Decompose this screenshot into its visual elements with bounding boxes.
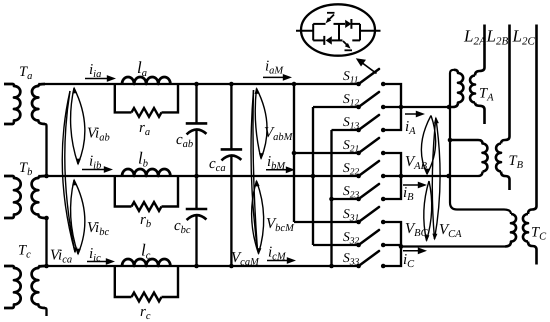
wire output C line	[401, 245, 505, 247]
wire S21 to node B	[383, 153, 401, 176]
node phase-a / c_ab	[194, 82, 199, 87]
inductor l_c	[122, 259, 170, 266]
IGBT Q2 (bottom-right)	[343, 41, 349, 47]
wire S32 to node C	[383, 245, 401, 247]
wire S31 feed	[294, 221, 359, 223]
capacitor c_ca	[221, 148, 243, 151]
switch S32 blade	[359, 230, 379, 245]
switch S31 blade	[359, 207, 379, 222]
oval bottom rail segs	[313, 39, 324, 41]
node Tb bottom corner	[44, 216, 49, 221]
current arrow i_ic	[87, 261, 108, 263]
capacitor c_ab	[186, 122, 208, 125]
current arrow i_aM	[263, 76, 285, 78]
node phase-c / c_bc	[194, 264, 199, 269]
wire phase a bus	[293, 84, 295, 222]
switch S13 blade	[359, 115, 379, 130]
wire phase c bus	[330, 130, 332, 266]
switch S21 terminals	[356, 151, 361, 156]
transformer Tc primary winding	[4, 266, 21, 308]
bidirectional switch detail oval	[301, 4, 375, 55]
inductor l_b	[122, 169, 170, 176]
oval middle rail	[338, 24, 340, 41]
voltage arrow Vi_ab	[71, 88, 78, 164]
wire phase b bus	[312, 107, 314, 245]
capacitor c_bc	[186, 208, 208, 211]
wire S31 to node C	[383, 222, 401, 247]
node phase-c bus	[329, 264, 334, 269]
node bus-a S21 tap	[292, 151, 297, 156]
transformer TC primary winding	[505, 214, 516, 247]
wire phase b line	[38, 175, 358, 177]
node phase-b bus	[311, 174, 316, 179]
switch S22 terminals	[356, 174, 361, 179]
current arrow i_A	[405, 113, 418, 115]
node C	[399, 244, 404, 249]
inductor l_a	[122, 77, 170, 84]
node phase-a / c_ca	[229, 82, 234, 87]
diode D1 (top-right)	[345, 20, 351, 28]
wire S32 feed	[313, 244, 359, 246]
oval right lead	[360, 30, 381, 32]
wire Tc-bottom stub	[45, 308, 47, 316]
wire S21 feed	[294, 152, 359, 154]
switch S13 terminals	[356, 128, 361, 133]
resistor r_c	[132, 293, 162, 302]
voltage arrow V_bcM	[252, 181, 259, 254]
transformer Tc secondary winding	[32, 266, 45, 308]
transformer Tb secondary winding	[32, 176, 45, 218]
transformer Ta primary winding	[4, 84, 20, 124]
voltage arrow V_BC	[424, 181, 429, 241]
oval left rail	[312, 24, 314, 41]
oval right rail	[359, 24, 361, 41]
wire Ta-bottom to phase b	[45, 124, 47, 176]
voltage arrow V_CA	[432, 118, 436, 239]
current arrow i_B	[403, 184, 420, 186]
resistor r_a	[132, 108, 162, 117]
resistor r_c branch	[115, 266, 132, 297]
wire S22 to node B	[383, 175, 401, 177]
node phase-a bus	[292, 82, 297, 87]
resistor r_b branch	[115, 176, 132, 207]
resistor r_b	[132, 202, 162, 211]
wire phase a line	[38, 83, 358, 85]
voltage arrow Vi_ca	[62, 91, 75, 252]
voltage arrow V_AB	[421, 116, 431, 175]
current arrow i_C	[403, 250, 420, 252]
switch S32 terminals	[356, 243, 361, 248]
transformer TB primary winding	[450, 140, 488, 172]
wire S12 feed	[313, 106, 359, 108]
transformer TB secondary winding	[496, 144, 501, 172]
wire S33 to node C	[383, 247, 401, 267]
wire Tb-bottom to phase c	[45, 218, 47, 266]
wire c_bc column	[195, 176, 197, 209]
voltage arrow V_abM	[255, 89, 261, 159]
switch S21 blade	[359, 138, 379, 153]
current arrow i_cM	[267, 260, 289, 262]
switch S23 terminals	[356, 197, 361, 202]
current arrow i_bM	[266, 169, 288, 171]
node output-B right	[446, 174, 451, 179]
wire S23 to node B	[383, 176, 401, 199]
wire S23 feed	[332, 198, 359, 200]
switch S33 terminals	[356, 264, 361, 269]
wire phase c line	[38, 265, 358, 267]
node B	[399, 174, 404, 179]
oval left lead	[296, 30, 313, 32]
IGBT Q1 (top-left)	[328, 15, 334, 21]
wire neutral bus	[450, 70, 511, 214]
switch S12 blade	[359, 92, 379, 107]
diode D2 (bottom-left)	[326, 36, 332, 44]
node phase-b / c_ab-c_bc	[194, 174, 199, 179]
node output-A right	[447, 105, 452, 110]
voltage arrow V_caM	[251, 90, 257, 250]
current arrow i_ib	[82, 169, 106, 171]
wire c_ab column	[195, 84, 197, 123]
transformer TA secondary winding	[475, 103, 485, 125]
wire S13 to node A	[383, 107, 401, 130]
switch S11 blade	[359, 69, 379, 84]
transformer Tb primary winding	[4, 176, 21, 218]
wire S12 to node A	[383, 106, 401, 108]
node bus-c S23 tap	[329, 197, 334, 202]
node A	[399, 105, 404, 110]
switch S12 terminals	[356, 105, 361, 110]
wire output A line	[401, 106, 449, 108]
transformer TC secondary winding	[523, 214, 528, 242]
voltage arrow Vi_bc	[71, 180, 78, 254]
node phase-c / c_ca	[229, 264, 234, 269]
wire output B line	[401, 172, 483, 177]
transformer Ta secondary winding	[32, 84, 45, 124]
wire S11 to node A	[383, 84, 401, 107]
wire S13 feed	[332, 129, 359, 131]
node neutral Tb tap	[448, 138, 453, 143]
switch S23 blade	[359, 184, 379, 199]
switch S31 terminals	[356, 220, 361, 225]
callout arrow to oval	[361, 62, 377, 74]
transformer TA primary winding	[450, 70, 463, 107]
resistor r_a branch	[115, 84, 132, 112]
switch S22 blade	[359, 161, 379, 176]
current arrow i_ia	[85, 78, 109, 80]
node phase-b / Ta	[44, 174, 49, 179]
node phase-c / Tb	[44, 264, 49, 269]
oval top rail segs	[313, 23, 325, 25]
switch S33 blade	[359, 251, 379, 266]
wire c_ca column	[230, 84, 232, 149]
switch S11 terminals	[356, 82, 361, 87]
